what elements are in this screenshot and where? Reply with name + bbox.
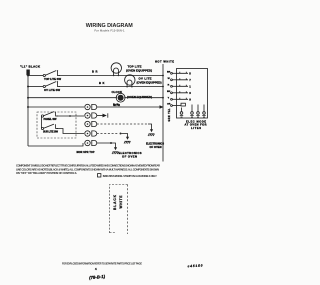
svg-text:(OVEN EQUIPPED): (OVEN EQUIPPED) [127,95,152,99]
svg-text:(OVEN EQUIPPED): (OVEN EQUIPPED) [126,68,152,72]
J1 pin 5 stub, wire Y [168,97,192,101]
wire row3 right [125,97,163,99]
ground G2 (electronics of oven) [124,137,130,144]
svg-text:ELECTRONICS: ELECTRONICS [119,151,142,155]
svg-text:ON "OFF" OR "RELAXED" POSITION: ON "OFF" OR "RELAXED" POSITION OF CONTRO… [16,171,77,175]
svg-text:W: W [168,78,171,80]
wire P3 drop [148,124,152,130]
svg-text:LITES: LITES [191,126,201,130]
J1 pin 6 stub, wire OR [167,103,185,106]
wire P4 drop [122,134,128,138]
connector block J1 (oven harness) [177,69,208,119]
wire S4 out [57,129,85,134]
svg-text:4: 4 [95,267,97,271]
lamp DS1 TOP LITE [111,63,121,76]
junction bus R row2 [162,86,164,88]
svg-text:(OVEN EQUIPPED): (OVEN EQUIPPED) [137,80,162,84]
svg-text:BK: BK [167,91,171,93]
junction P4 [120,133,122,135]
lamp DS5 (in J1) with ground [196,105,199,118]
J1 pin 2 stub, wire W [168,78,192,82]
svg-text:9: 9 [189,97,191,101]
svg-text:GRN YEL: GRN YEL [169,108,171,122]
wire pair1 to bus R [97,106,163,108]
switch S3 PANEL SW [41,112,58,118]
switch S1 TOP LITE SW [43,70,60,76]
svg-text:5: 5 [189,71,191,75]
svg-text:BK: BK [99,81,105,85]
J1 pin 4 stub, wire BK [167,91,191,95]
junction row1 [27,75,29,77]
svg-text:INDICATES MODEL STAMP ON GAS M: INDICATES MODEL STAMP ON GAS MODELS ONLY [103,174,157,178]
connector pair P3 [85,121,97,126]
ground G3 (electronics of oven) [112,147,118,154]
harness conduit (dashed) [110,185,128,234]
svg-text:WHITE: WHITE [119,195,123,209]
svg-text:TOP LITE SW: TOP LITE SW [44,77,61,81]
svg-text:SUR LITE SW: SUR LITE SW [43,130,59,134]
junction S3 out [69,115,71,117]
junction bus R pair1 row [160,105,164,109]
svg-text:OF OVEN: OF OVEN [150,146,162,149]
switch S2 OV LITE SW [43,81,60,87]
junction bus R row3 [162,97,164,99]
dashed enclosure (panel switches) [37,112,76,138]
svg-text:COMPONENT SYMBOLS DO NOT REFLE: COMPONENT SYMBOLS DO NOT REFLECT TRUE CO… [16,163,160,167]
note model stamp symbol [98,174,101,177]
wire row1 left [28,75,44,77]
svg-text:1: 1 [189,84,191,88]
svg-text:3: 3 [189,91,191,95]
wire pair1 feed [28,106,84,108]
lamp DS4 (in J1) with ground [190,105,193,118]
connector pair P4 [85,131,97,136]
svg-text:Y: Y [168,97,170,99]
wire P5 run [97,143,116,148]
connector pair P2 [85,113,97,118]
wire row3 left [28,97,116,99]
wire row1 right [59,75,164,77]
svg-text:AT OVEN FOR: AT OVEN FOR [185,123,207,127]
wire row2 left [28,86,44,88]
svg-text:PANEL SW: PANEL SW [44,117,58,121]
svg-text:LINE COLORS ARE AS NOTED (BLAC: LINE COLORS ARE AS NOTED (BLACK & WHITE)… [16,167,159,171]
svg-text:"L1" BLACK: "L1" BLACK [20,65,41,69]
lamp DS3 (in J1) with ground [180,108,183,118]
svg-text:WIRING DIAGRAM: WIRING DIAGRAM [86,23,133,29]
motor M1 clock [116,93,126,102]
svg-text:(78-B-1): (78-B-1) [89,274,106,280]
junction row3 [27,97,29,99]
wire P3 dashed run [97,123,148,125]
lamp DS2 OV LITE [125,75,135,88]
junction P5 [110,142,112,144]
lamp DS6 (in J1) with ground [202,105,205,118]
wire P5 feed from bus L [28,143,83,146]
svg-text:FOR EXPLODED INFORMATION REFER: FOR EXPLODED INFORMATION REFER TO SEPARA… [62,263,142,266]
bus R (hot white vertical) [162,64,164,162]
svg-text:OV LITE SW: OV LITE SW [44,88,60,92]
wire row2 right [59,86,164,88]
svg-text:For Models F10-56N-1: For Models F10-56N-1 [95,30,126,33]
terminal slip blade (top cap of left bus) [26,70,29,76]
svg-text:BR: BR [113,102,119,106]
junction bus R row1 [162,75,164,77]
svg-text:BR: BR [167,71,171,73]
connector pair P1 [85,104,97,109]
svg-text:OF OVEN: OF OVEN [122,154,137,158]
svg-text:ELEC MODE: ELEC MODE [186,119,206,123]
J1 pin 1 stub, wire BR [167,71,191,75]
J1 pin 3 stub, wire R [168,84,192,88]
junction row2 [27,86,29,88]
wire P2 stub with connector arrow [97,115,103,117]
wire S3 to P2 [57,115,85,117]
svg-text:OR: OR [167,104,171,106]
svg-text:MOR SPR TOP: MOR SPR TOP [77,151,95,154]
ground G1 (electronics of oven) [148,129,154,136]
connector pair P5 [85,140,97,145]
svg-text:BR: BR [92,70,98,74]
svg-text:c45150: c45150 [187,264,202,269]
wire P4 dashed run [97,133,119,135]
bus L (left vertical feed) [27,70,29,146]
svg-text:7: 7 [189,78,191,82]
svg-text:HOT WHITE: HOT WHITE [155,60,174,64]
switch S4 SUR LITE SW [41,124,58,130]
wire tie S3-S4 pivots [40,117,42,129]
svg-text:R: R [168,84,170,86]
svg-text:BLACK: BLACK [113,194,117,210]
